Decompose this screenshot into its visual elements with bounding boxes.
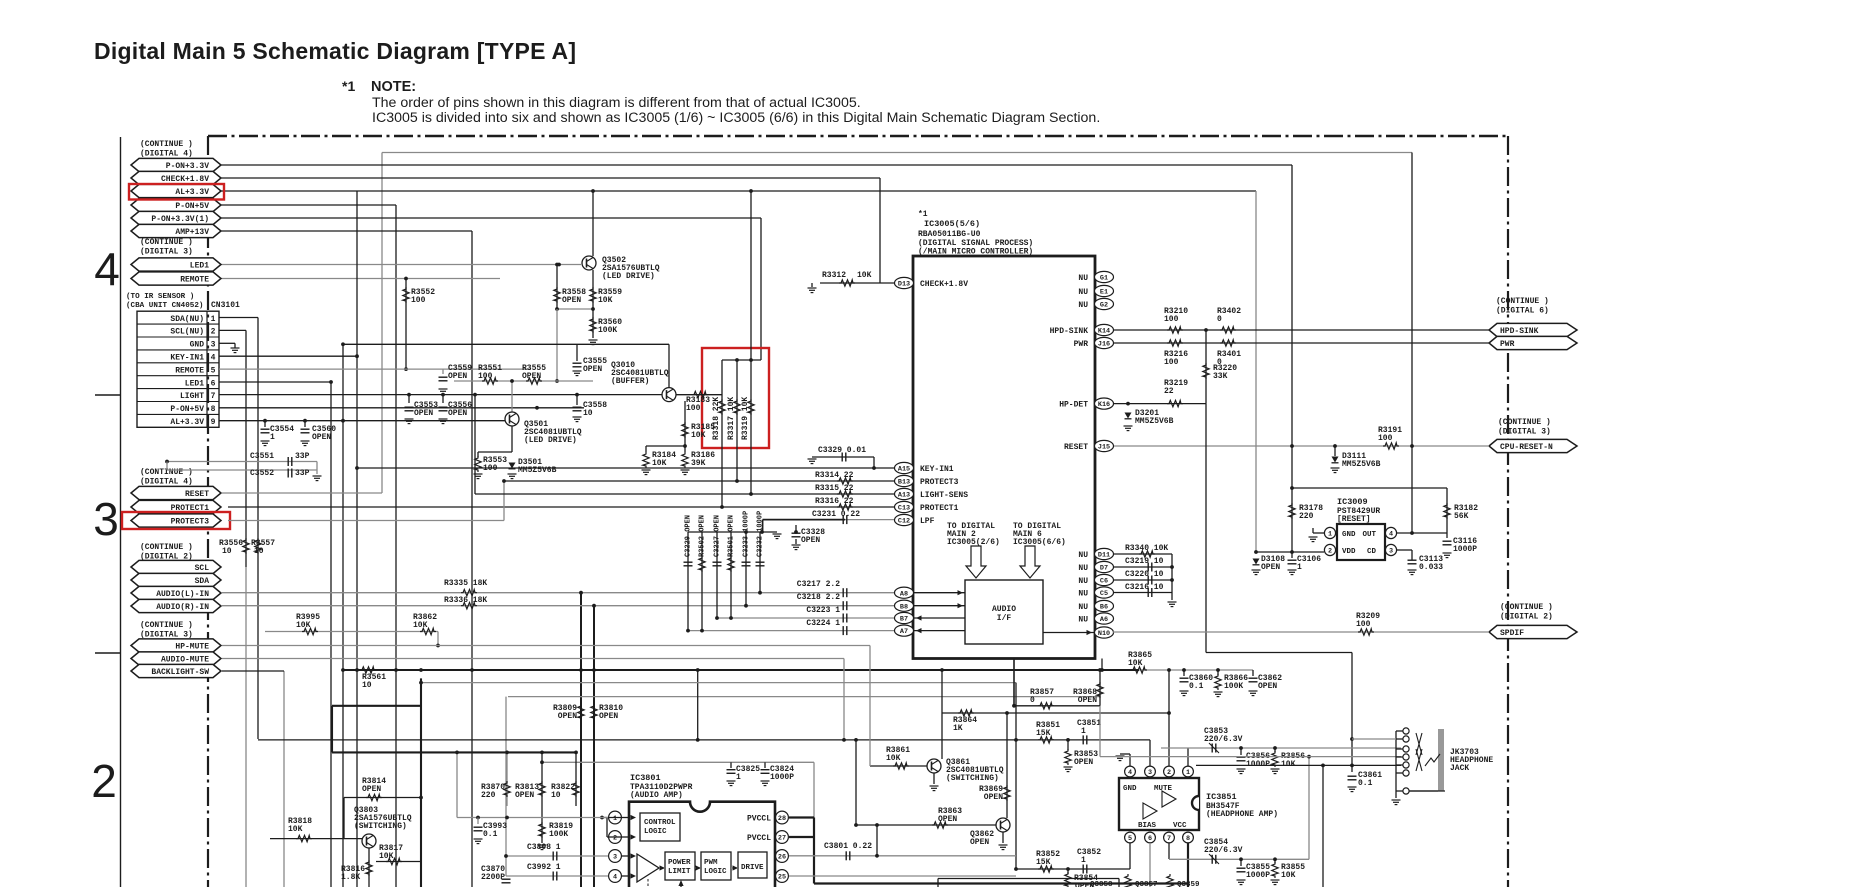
svg-text:J16: J16 [1098, 341, 1110, 349]
svg-text:100: 100 [1356, 620, 1371, 629]
svg-text:NU: NU [1078, 577, 1088, 586]
svg-text:HPD-SINK: HPD-SINK [1050, 327, 1089, 336]
svg-text:10K: 10K [857, 271, 872, 280]
svg-text:(TO IR SENSOR ): (TO IR SENSOR ) [126, 293, 194, 301]
svg-text:15K: 15K [1036, 858, 1051, 867]
svg-text:NU: NU [1078, 616, 1088, 625]
svg-text:10K: 10K [1281, 760, 1296, 769]
svg-text:NU: NU [1078, 288, 1088, 297]
svg-text:C3223 1: C3223 1 [806, 606, 840, 615]
svg-text:C3224 1: C3224 1 [806, 619, 840, 628]
svg-text:(LED DRIVE): (LED DRIVE) [602, 272, 655, 281]
svg-text:P-ON+5V: P-ON+5V [175, 202, 209, 211]
svg-text:D7: D7 [1100, 565, 1108, 573]
svg-text:39K: 39K [691, 459, 706, 468]
svg-text:PWR: PWR [1500, 340, 1515, 349]
svg-text:E1: E1 [1100, 289, 1108, 297]
svg-text:OPEN: OPEN [1074, 758, 1093, 767]
svg-text:OPEN: OPEN [312, 433, 331, 442]
svg-text:OUT: OUT [1362, 531, 1376, 539]
svg-text:LIGHT: LIGHT [180, 392, 204, 401]
svg-text:GND: GND [1123, 785, 1137, 793]
svg-text:R3501 OPEN: R3501 OPEN [728, 515, 736, 557]
svg-text:220/6.3V: 220/6.3V [1204, 846, 1243, 855]
svg-text:(CONTINUE ): (CONTINUE ) [1498, 418, 1551, 427]
svg-text:0.1: 0.1 [1358, 779, 1373, 788]
svg-text:BIAS: BIAS [1138, 822, 1157, 830]
svg-text:10K: 10K [413, 621, 428, 630]
svg-text:R3502 OPEN: R3502 OPEN [699, 515, 707, 557]
svg-text:10K: 10K [691, 431, 706, 440]
svg-text:AL+3.3V: AL+3.3V [175, 188, 209, 197]
svg-text:C3233 1000P: C3233 1000P [743, 511, 751, 557]
svg-text:*1: *1 [342, 78, 355, 94]
svg-text:KEY-IN1: KEY-IN1 [170, 354, 204, 363]
svg-text:R3312: R3312 [822, 271, 846, 280]
svg-text:LIMIT: LIMIT [668, 868, 691, 876]
svg-text:IC3009: IC3009 [1337, 497, 1368, 507]
svg-text:6: 6 [1148, 835, 1152, 843]
svg-text:2: 2 [1328, 548, 1332, 556]
svg-text:1: 1 [1081, 856, 1086, 865]
svg-text:7: 7 [1167, 835, 1171, 843]
svg-text:(DIGITAL 6): (DIGITAL 6) [1496, 307, 1549, 316]
svg-text:(SWITCHING): (SWITCHING) [946, 774, 999, 783]
svg-text:OPEN: OPEN [1258, 682, 1277, 691]
svg-text:IC3005(5/6): IC3005(5/6) [924, 219, 980, 229]
svg-text:B7: B7 [900, 616, 908, 624]
svg-text:1000P: 1000P [1246, 760, 1270, 769]
svg-text:C3229 OPEN: C3229 OPEN [685, 515, 693, 557]
svg-text:G1: G1 [1100, 275, 1108, 283]
svg-text:Q3859: Q3859 [1177, 881, 1200, 887]
svg-text:100: 100 [686, 404, 701, 413]
svg-text:1: 1 [1328, 531, 1332, 539]
svg-text:1: 1 [1297, 563, 1302, 572]
svg-text:R3318 22K: R3318 22K [712, 397, 721, 440]
svg-text:10K: 10K [652, 459, 667, 468]
svg-text:C3231 0.22: C3231 0.22 [812, 510, 860, 519]
svg-text:(DIGITAL 4): (DIGITAL 4) [140, 150, 193, 159]
svg-text:0.1: 0.1 [483, 830, 498, 839]
svg-text:C3552: C3552 [250, 469, 274, 478]
svg-text:NU: NU [1078, 274, 1088, 283]
svg-text:8: 8 [1186, 835, 1190, 843]
svg-text:RESET: RESET [185, 490, 209, 499]
svg-text:A8: A8 [900, 590, 908, 598]
svg-text:D13: D13 [898, 281, 910, 289]
svg-text:10K: 10K [1281, 871, 1296, 880]
svg-text:OPEN: OPEN [984, 793, 1003, 802]
svg-text:4: 4 [1389, 531, 1393, 539]
svg-text:IC3801: IC3801 [630, 773, 661, 783]
svg-text:LIGHT-SENS: LIGHT-SENS [920, 491, 968, 500]
svg-text:[RESET]: [RESET] [1337, 515, 1371, 524]
svg-text:4: 4 [94, 243, 120, 295]
svg-text:3: 3 [93, 493, 119, 545]
svg-text:C3216 10: C3216 10 [1125, 583, 1164, 592]
svg-text:C3219 10: C3219 10 [1125, 557, 1164, 566]
svg-text:(CONTINUE ): (CONTINUE ) [1500, 603, 1553, 612]
svg-text:10K: 10K [288, 825, 303, 834]
svg-text:KEY-IN1: KEY-IN1 [920, 465, 954, 474]
svg-text:100K: 100K [549, 830, 568, 839]
svg-text:C12: C12 [898, 518, 910, 526]
svg-text:K14: K14 [1098, 328, 1110, 336]
svg-text:CONTROL: CONTROL [644, 819, 676, 827]
svg-text:1: 1 [736, 773, 741, 782]
svg-text:N10: N10 [1098, 630, 1110, 638]
svg-text:C5: C5 [1100, 590, 1108, 598]
svg-text:HPD-SINK: HPD-SINK [1500, 327, 1539, 336]
svg-text:A13: A13 [898, 492, 910, 500]
svg-text:A7: A7 [900, 628, 908, 636]
svg-text:IC3005 is divided into six and: IC3005 is divided into six and shown as … [372, 110, 1100, 126]
svg-text:(BUFFER): (BUFFER) [611, 377, 649, 386]
svg-text:LED1: LED1 [190, 262, 209, 271]
svg-text:OPEN: OPEN [1078, 696, 1097, 705]
svg-text:A6: A6 [1100, 616, 1108, 624]
svg-text:VDD: VDD [1342, 548, 1356, 556]
svg-text:OPEN: OPEN [515, 791, 534, 800]
svg-text:NOTE:: NOTE: [371, 79, 416, 95]
svg-text:IC3851: IC3851 [1206, 792, 1237, 802]
svg-text:PWR: PWR [1074, 340, 1089, 349]
svg-text:NU: NU [1078, 590, 1088, 599]
svg-text:PWM: PWM [704, 859, 718, 867]
svg-text:B13: B13 [898, 479, 910, 487]
svg-text:LED1: LED1 [185, 379, 204, 388]
svg-text:27: 27 [778, 835, 786, 843]
svg-text:3: 3 [211, 341, 216, 350]
svg-text:(CONTINUE ): (CONTINUE ) [140, 621, 193, 630]
svg-text:NU: NU [1078, 301, 1088, 310]
svg-text:C3227 OPEN: C3227 OPEN [714, 515, 722, 557]
svg-text:BACKLIGHT-SW: BACKLIGHT-SW [151, 668, 209, 677]
svg-text:R3317 10K: R3317 10K [727, 397, 736, 440]
svg-text:NU: NU [1078, 551, 1088, 560]
svg-text:P-ON+3.3V(1): P-ON+3.3V(1) [151, 215, 209, 224]
svg-text:2: 2 [91, 755, 117, 807]
svg-text:(LED DRIVE): (LED DRIVE) [524, 436, 577, 445]
svg-text:C6: C6 [1100, 578, 1108, 586]
svg-text:(CONTINUE ): (CONTINUE ) [1496, 297, 1549, 306]
svg-text:P-ON+3.3V: P-ON+3.3V [166, 162, 209, 171]
svg-text:AUDIO(L)-IN: AUDIO(L)-IN [156, 590, 209, 599]
svg-text:PROTECT3: PROTECT3 [920, 478, 959, 487]
svg-text:SDA(NU): SDA(NU) [170, 315, 204, 324]
svg-text:R3335 18K: R3335 18K [444, 579, 487, 588]
svg-text:AUDIO: AUDIO [992, 605, 1016, 614]
svg-text:CN3101: CN3101 [211, 301, 240, 310]
svg-text:(HEADPHONE AMP): (HEADPHONE AMP) [1206, 810, 1278, 819]
svg-text:SCL(NU): SCL(NU) [170, 328, 204, 337]
svg-text:4: 4 [613, 874, 617, 882]
svg-text:100: 100 [1164, 358, 1179, 367]
svg-text:B8: B8 [900, 603, 908, 611]
svg-text:Q3857: Q3857 [1135, 881, 1158, 887]
svg-text:R3319 10K: R3319 10K [741, 397, 750, 440]
svg-text:1000P: 1000P [1246, 871, 1270, 880]
svg-text:AMP+13V: AMP+13V [175, 228, 209, 237]
svg-text:PVCCL: PVCCL [747, 834, 771, 843]
svg-text:22: 22 [1164, 387, 1174, 396]
svg-text:G2: G2 [1100, 302, 1108, 310]
svg-text:VCC: VCC [1173, 822, 1187, 830]
svg-text:MM5Z5V6B: MM5Z5V6B [1135, 417, 1174, 426]
svg-text:56K: 56K [1454, 512, 1469, 521]
svg-text:C3217 2.2: C3217 2.2 [797, 580, 840, 589]
svg-text:LOGIC: LOGIC [644, 828, 667, 836]
svg-text:1: 1 [1186, 769, 1190, 777]
svg-text:AUDIO-MUTE: AUDIO-MUTE [161, 656, 209, 665]
svg-text:The order of pins shown in thi: The order of pins shown in this diagram … [372, 95, 861, 111]
svg-text:1.8K: 1.8K [341, 873, 360, 882]
svg-text:100K: 100K [598, 326, 617, 335]
svg-text:26: 26 [778, 854, 786, 862]
svg-text:10: 10 [551, 791, 561, 800]
svg-text:SDA: SDA [195, 577, 210, 586]
svg-text:R3316 22: R3316 22 [815, 497, 854, 506]
svg-text:OPEN: OPEN [414, 409, 433, 418]
svg-text:100: 100 [1378, 434, 1393, 443]
svg-text:OPEN: OPEN [1261, 563, 1280, 572]
svg-text:NU: NU [1078, 564, 1088, 573]
svg-text:(CONTINUE ): (CONTINUE ) [140, 140, 193, 149]
svg-text:7: 7 [211, 392, 216, 401]
svg-text:10K: 10K [886, 754, 901, 763]
svg-text:PROTECT1: PROTECT1 [920, 504, 959, 513]
svg-text:AUDIO(R)-IN: AUDIO(R)-IN [156, 603, 209, 612]
svg-text:5: 5 [211, 366, 216, 375]
svg-text:HP-MUTE: HP-MUTE [175, 643, 209, 652]
svg-text:GND: GND [1342, 531, 1356, 539]
svg-text:CD: CD [1367, 548, 1377, 556]
svg-text:OPEN: OPEN [562, 296, 581, 305]
svg-text:10K: 10K [598, 296, 613, 305]
svg-text:OPEN: OPEN [522, 372, 541, 381]
svg-text:CPU-RESET-N: CPU-RESET-N [1500, 443, 1553, 452]
svg-text:R3315 22: R3315 22 [815, 484, 854, 493]
svg-text:0.033: 0.033 [1419, 563, 1443, 572]
svg-text:B6: B6 [1100, 604, 1108, 612]
svg-text:C13: C13 [898, 505, 910, 513]
svg-text:OPEN: OPEN [362, 785, 381, 794]
svg-text:28: 28 [778, 815, 786, 823]
svg-text:R3340 10K: R3340 10K [1125, 544, 1168, 553]
svg-text:100: 100 [411, 296, 426, 305]
svg-text:1: 1 [613, 815, 617, 823]
svg-text:5: 5 [1128, 835, 1132, 843]
svg-text:MM5Z5V6B: MM5Z5V6B [1342, 460, 1381, 469]
svg-text:8: 8 [211, 405, 216, 414]
svg-text:C3801 0.22: C3801 0.22 [824, 842, 872, 851]
svg-text:(DIGITAL 3): (DIGITAL 3) [140, 248, 193, 257]
svg-text:Digital Main 5 Schematic Diagr: Digital Main 5 Schematic Diagram [TYPE A… [94, 38, 576, 64]
svg-text:1: 1 [1081, 727, 1086, 736]
svg-text:0: 0 [1217, 315, 1222, 324]
svg-text:1000P: 1000P [1453, 545, 1477, 554]
svg-text:33K: 33K [1213, 372, 1228, 381]
svg-text:LOGIC: LOGIC [704, 868, 727, 876]
svg-text:REMOTE: REMOTE [180, 276, 209, 285]
svg-text:2: 2 [1167, 769, 1171, 777]
svg-text:RBA05011BG-U0: RBA05011BG-U0 [918, 230, 981, 239]
svg-text:6: 6 [211, 379, 216, 388]
svg-text:OPEN: OPEN [583, 365, 602, 374]
svg-text:OPEN: OPEN [599, 712, 618, 721]
svg-text:C3551: C3551 [250, 452, 274, 461]
svg-text:33P: 33P [295, 469, 310, 478]
svg-text:CHECK+1.8V: CHECK+1.8V [920, 280, 968, 289]
svg-text:HP-DET: HP-DET [1059, 401, 1088, 410]
svg-text:(DIGITAL 3): (DIGITAL 3) [1498, 428, 1551, 437]
svg-text:DRIVE: DRIVE [741, 864, 764, 872]
svg-text:OPEN: OPEN [448, 409, 467, 418]
svg-text:(CBA UNIT CN4052): (CBA UNIT CN4052) [126, 302, 203, 310]
svg-text:4: 4 [211, 354, 216, 363]
svg-text:10K: 10K [379, 852, 394, 861]
svg-text:100: 100 [1164, 315, 1179, 324]
svg-text:33P: 33P [295, 452, 310, 461]
svg-text:10K: 10K [296, 621, 311, 630]
svg-text:Q3858: Q3858 [1090, 881, 1113, 887]
svg-text:10: 10 [583, 409, 593, 418]
svg-text:R3314 22: R3314 22 [815, 471, 854, 480]
svg-text:10: 10 [254, 547, 264, 556]
svg-text:3: 3 [613, 854, 617, 862]
svg-text:JACK: JACK [1450, 764, 1469, 773]
svg-text:P-ON+5V: P-ON+5V [170, 405, 204, 414]
svg-text:10: 10 [222, 547, 232, 556]
svg-text:IC3005(6/6): IC3005(6/6) [1013, 538, 1066, 547]
svg-text:15K: 15K [1036, 729, 1051, 738]
svg-text:220: 220 [1299, 512, 1314, 521]
svg-text:C3220 10: C3220 10 [1125, 570, 1164, 579]
svg-text:100: 100 [478, 372, 493, 381]
svg-text:10: 10 [362, 681, 372, 690]
svg-text:OPEN: OPEN [558, 712, 577, 721]
svg-text:MM5Z5V6B: MM5Z5V6B [518, 466, 557, 475]
svg-text:SPDIF: SPDIF [1500, 629, 1524, 638]
svg-text:OPEN: OPEN [448, 372, 467, 381]
svg-text:J15: J15 [1098, 444, 1110, 452]
svg-text:1: 1 [270, 433, 275, 442]
svg-text:(DIGITAL 4): (DIGITAL 4) [140, 478, 193, 487]
svg-text:D11: D11 [1098, 552, 1110, 560]
svg-text:C3992 1: C3992 1 [527, 863, 561, 872]
svg-text:OPEN: OPEN [970, 838, 989, 847]
svg-text:3: 3 [1148, 769, 1152, 777]
svg-text:4: 4 [1128, 769, 1132, 777]
svg-text:PROTECT3: PROTECT3 [171, 518, 210, 527]
svg-text:IC3005(2/6): IC3005(2/6) [947, 538, 1000, 547]
svg-text:2200P: 2200P [481, 873, 505, 882]
svg-text:C3329 0.01: C3329 0.01 [818, 446, 866, 455]
svg-text:NU: NU [1078, 603, 1088, 612]
svg-text:A15: A15 [898, 466, 910, 474]
svg-text:GND: GND [190, 341, 205, 350]
svg-text:25: 25 [778, 874, 786, 882]
svg-text:K16: K16 [1098, 401, 1110, 409]
svg-text:9: 9 [211, 418, 216, 427]
svg-text:2: 2 [613, 835, 617, 843]
svg-text:(SWITCHING): (SWITCHING) [354, 822, 407, 831]
svg-text:220: 220 [481, 791, 496, 800]
svg-text:3: 3 [1389, 548, 1393, 556]
svg-text:POWER: POWER [668, 859, 691, 867]
svg-text:10K: 10K [1128, 659, 1143, 668]
svg-text:(/MAIN MICRO CONTROLLER): (/MAIN MICRO CONTROLLER) [918, 248, 1033, 257]
svg-text:0: 0 [1030, 696, 1035, 705]
svg-text:CHECK+1.8V: CHECK+1.8V [161, 175, 209, 184]
svg-text:OPEN: OPEN [801, 536, 820, 545]
svg-text:(AUDIO AMP): (AUDIO AMP) [630, 791, 683, 800]
svg-text:OPEN: OPEN [938, 815, 957, 824]
svg-text:(DIGITAL 2): (DIGITAL 2) [1500, 613, 1553, 622]
svg-text:C3232 1000P: C3232 1000P [757, 511, 765, 557]
svg-text:I/F: I/F [997, 614, 1012, 623]
svg-text:(CONTINUE ): (CONTINUE ) [140, 543, 193, 552]
svg-text:100: 100 [483, 464, 498, 473]
svg-text:SCL: SCL [195, 564, 210, 573]
svg-text:R3336 18K: R3336 18K [444, 596, 487, 605]
svg-text:PVCCL: PVCCL [747, 815, 771, 824]
svg-text:AL+3.3V: AL+3.3V [170, 418, 204, 427]
svg-text:100K: 100K [1224, 682, 1243, 691]
svg-text:2: 2 [211, 328, 216, 337]
svg-text:C3218 2.2: C3218 2.2 [797, 593, 840, 602]
svg-text:220/6.3V: 220/6.3V [1204, 735, 1243, 744]
svg-text:*1: *1 [918, 210, 928, 219]
svg-text:RESET: RESET [1064, 443, 1088, 452]
svg-text:1K: 1K [953, 724, 963, 733]
svg-text:LPF: LPF [920, 517, 935, 526]
svg-text:REMOTE: REMOTE [175, 366, 204, 375]
svg-text:0.1: 0.1 [1189, 682, 1204, 691]
svg-text:(CONTINUE ): (CONTINUE ) [140, 238, 193, 247]
svg-text:1: 1 [211, 315, 216, 324]
svg-text:1000P: 1000P [770, 773, 794, 782]
